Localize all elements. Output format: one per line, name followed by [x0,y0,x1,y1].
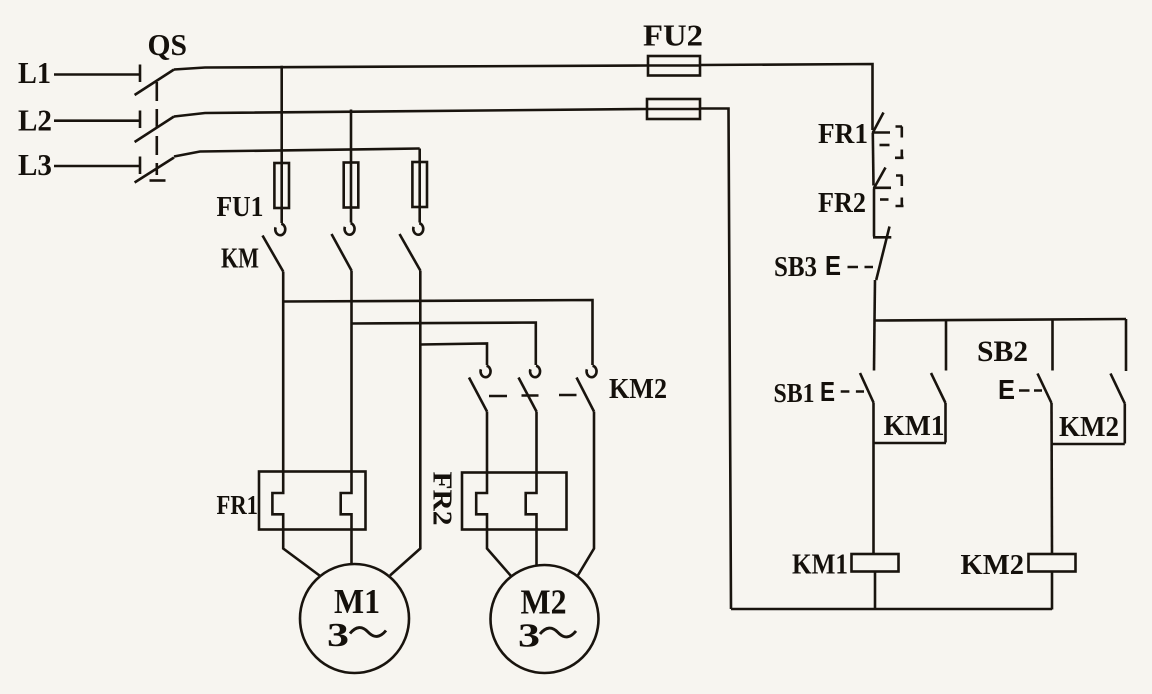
fuse FU1 pole 1 [274,163,289,208]
wire L1 lead [54,73,140,76]
contactor KM2 pole 2 terminal hook [530,366,540,377]
contactor KM pole 1 blade [263,236,284,272]
label M2 [521,583,567,622]
contactor KM2 linkage dashes [489,395,577,396]
svg-text:KM2: KM2 [961,549,1025,581]
svg-text:E: E [825,250,841,281]
pushbutton SB2 actuator dashes [1019,389,1042,392]
thermal contact FR2 dashed link [880,198,889,201]
contactor KM2 pole 3 blade [577,378,595,412]
thermal contact FR2 crossbar [873,187,891,190]
wire SB1 to coil KM1 [872,403,875,555]
wire FU2 upper to control vertical [700,64,873,130]
label KM2 auxiliary [1059,411,1119,443]
svg-text:KM: KM [221,244,259,275]
thermal contact FR1 crossbar [872,131,890,134]
label M2 3-phase [518,618,576,655]
svg-text:M2: M2 [521,583,567,622]
wire L3 lead [54,165,140,168]
contactor KM pole 2 terminal hook [345,223,355,234]
contactor KM2 pole 1 blade [469,378,487,412]
thermal relay FR2 heater box [462,473,567,530]
label FR1 power [217,490,259,520]
switch QS pole 1 fixed contact [139,65,142,83]
svg-text:M1: M1 [334,582,380,621]
svg-text:FR1: FR1 [217,490,259,520]
wire fuse 1 to KM contact 1 [280,208,283,223]
contactor KM pole 2 blade [332,234,352,271]
label SB1 [774,378,815,408]
label FU1 [217,191,264,223]
wire KM2 pole 3 down to motor M2 [578,412,595,577]
svg-text:E: E [820,376,835,407]
wire tap B to KM2 pole 2 [352,323,536,366]
contactor KM2 pole 2 blade [519,378,537,412]
wire SB2 to coil KM2 [1050,403,1053,554]
svg-text:SB2: SB2 [977,335,1028,368]
contact KM2 auxiliary blade [1111,374,1125,404]
pushbutton SB1 upper terminal [873,321,876,371]
wire drop phase 3 [418,149,421,163]
label FU2 [643,18,703,53]
thermal contact FR1 dashed link [880,144,890,147]
wire fuse 3 to KM contact 3 [418,207,421,223]
pushbutton SB3 blade [876,227,889,281]
label FR2 control [818,187,866,219]
thermal contact FR2 element bracket [896,176,904,207]
thermal contact FR1 element bracket [895,127,904,159]
thermal relay FR1 heater box [259,472,366,530]
motor M2 circle [491,565,599,673]
label SB2 [977,335,1028,368]
pushbutton SB2 actuator E [998,374,1015,405]
wire FR1 to FR2 [871,133,874,186]
wire KM2 pole 2 down through FR2 heater 2 to motor M2 [526,412,537,566]
label SB3 [774,252,817,283]
switch QS linkage end tick [150,179,166,182]
wire KM2 auxiliary lower [1124,404,1127,444]
label KM1 coil [792,549,848,581]
svg-text:QS: QS [148,27,188,62]
wire coil KM2 to bottom bus [1051,572,1054,610]
contactor KM2 pole 3 terminal hook [587,366,597,377]
wire L1 bus [174,66,648,70]
svg-text:SB3: SB3 [774,252,817,283]
svg-text:FR1: FR1 [818,118,868,150]
wire control bus [875,319,1127,321]
svg-text:FR2: FR2 [428,472,458,526]
label QS [148,27,188,62]
coil KM1 [852,554,899,572]
label KM2 power [609,373,667,405]
wire FR2 to SB3 [873,189,876,237]
svg-text:FU1: FU1 [217,191,264,223]
contactor KM2 pole 1 terminal hook [481,366,491,377]
wire tap A to KM2 pole 3 [283,300,592,365]
wire bottom bus [731,608,1052,611]
label KM1 auxiliary [884,410,945,442]
pushbutton SB3 seat bar [873,236,891,239]
wire L2 bus [174,109,647,117]
svg-text:FR2: FR2 [818,187,866,219]
svg-text:KM1: KM1 [792,549,848,581]
label FR2 power rotated [428,472,458,526]
label L1 [18,55,51,90]
pushbutton SB2 upper terminal [1051,320,1054,371]
coil KM2 [1029,554,1076,572]
pushbutton SB1 blade [860,373,874,403]
thermal contact FR2 blade [874,168,886,189]
svg-text:FU2: FU2 [643,18,703,53]
contact KM2 auxiliary upper terminal [1125,319,1128,371]
pushbutton SB1 actuator dashes [841,390,864,393]
svg-text:KM2: KM2 [609,373,667,405]
svg-text:L1: L1 [18,55,51,90]
fuse FU2 lower [647,99,700,119]
pushbutton SB1 actuator E [820,376,835,407]
label FR1 control [818,118,868,150]
wire coil KM1 to bottom bus [874,572,877,610]
label L3 [18,147,52,182]
contactor KM pole 3 blade [400,234,421,271]
wire SB3 to node [873,280,876,321]
label M1 [334,582,380,621]
wire tap C to KM2 pole 1 [420,344,487,366]
svg-text:3: 3 [518,618,540,655]
wire KM2 loop bottom [1052,443,1125,446]
contactor KM pole 3 terminal hook [413,223,423,234]
thermal contact FR1 blade [873,113,884,134]
contactor KM pole 1 terminal hook [275,224,285,235]
wire L3 bus [174,149,420,157]
wire KM pole 3 down to motor M1 [390,271,420,576]
fuse FU1 pole 3 [412,162,427,207]
fuse FU2 upper [648,56,700,76]
svg-text:L3: L3 [18,147,52,182]
switch QS pole 3 fixed contact [139,157,142,175]
pushbutton SB3 actuator dashes [848,266,874,269]
wire L2 lead [54,119,140,122]
wire KM pole 1 down through FR1 heater 1 to motor M1 [272,272,319,576]
wire KM1 loop bottom [874,442,946,445]
svg-text:KM2: KM2 [1059,411,1119,443]
motor M1 circle [300,564,409,673]
pushbutton SB2 blade [1038,374,1052,404]
label KM [221,244,259,275]
switch QS pole 3 blade [135,158,174,183]
wire drop phase 2 [350,110,353,163]
label KM2 coil [961,549,1025,581]
wire KM1 auxiliary lower [944,403,947,443]
pushbutton SB3 actuator E [825,250,841,281]
switch QS pole 2 fixed contact [139,111,142,129]
contact KM1 auxiliary upper terminal [945,320,948,371]
wire drop phase 1 [280,66,283,163]
wire KM2 pole 1 down through FR2 heater 1 to motor M2 [476,412,511,577]
wire fuse 2 to KM contact 2 [350,208,353,223]
svg-text:E: E [998,374,1015,405]
fuse FU1 pole 2 [344,163,359,208]
contact KM1 auxiliary blade [931,373,946,403]
switch QS linkage dashed bar [156,82,159,175]
label L2 [18,103,52,138]
svg-text:KM1: KM1 [884,410,945,442]
wire KM pole 2 down through FR1 heater 2 to motor M1 [341,271,352,565]
label M1 3-phase [327,617,386,654]
svg-text:3: 3 [327,617,349,654]
svg-text:SB1: SB1 [774,378,815,408]
switch QS pole 2 blade [135,117,174,143]
svg-text:L2: L2 [18,103,52,138]
switch QS pole 1 blade [135,70,174,96]
wire FU2 lower to left control vertical [700,109,731,610]
